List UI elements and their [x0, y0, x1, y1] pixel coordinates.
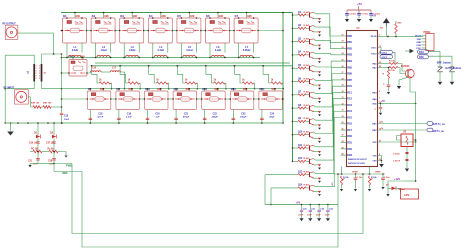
ground VR1: [340, 189, 343, 191]
wire VDD pin to regulator rail: [378, 141, 416, 143]
net flag OSC1 stadium: [380, 50, 393, 54]
svg-text:29: 29: [342, 85, 344, 87]
resistor R31 10k: [389, 61, 398, 65]
U1 right pin 20 VDD: [372, 140, 381, 144]
svg-text:10uF: 10uF: [316, 215, 321, 217]
relay K11: [172, 87, 197, 109]
transistor driver Q4 cell: [292, 51, 321, 63]
transistor driver Q13 cell: [265, 170, 321, 182]
wire Q15 collector step down: [410, 78, 416, 134]
wire resistor to bus 1: [110, 83, 113, 89]
ground bus junction dots: [17, 122, 19, 124]
wire bus to K12 coil: [204, 89, 206, 91]
svg-text:4.7nF: 4.7nF: [97, 116, 103, 119]
U1 right pin 1 MCLR: [371, 34, 380, 38]
connector J2 RF INPUT (BNC): [4, 87, 29, 104]
relay K4: [148, 14, 174, 43]
wire T1 secondary bottom to row2 bus: [42, 88, 62, 90]
wire L17 to BPF bank 2: [121, 72, 125, 89]
capacitor C40 100n decoupling: [345, 10, 357, 22]
svg-text:VDD: VDD: [417, 39, 422, 41]
wire K4 to next relay: [172, 30, 177, 32]
svg-text:25: 25: [342, 59, 344, 61]
svg-text:R 4k7: R 4k7: [304, 51, 310, 54]
connector J1 RF OUTPUT (BNC): [3, 23, 18, 39]
wire Q12 collector to U1: [314, 105, 347, 160]
svg-text:C 100n: C 100n: [361, 14, 369, 16]
U1 right pin 8 VSS: [372, 154, 380, 158]
svg-text:C23: C23: [241, 114, 246, 116]
inductor L5 0.2uH: [181, 46, 197, 59]
U1 left pin 28 RB7: [342, 78, 353, 82]
net flag SW-Tx_out: [427, 128, 444, 133]
svg-text:RC0: RC0: [347, 86, 352, 88]
capacitor C61 47uF: [393, 159, 409, 162]
svg-text:0.2uH: 0.2uH: [186, 50, 193, 52]
wire RB1 to flag: [378, 123, 428, 125]
svg-text:1.6uH: 1.6uH: [100, 50, 107, 52]
svg-text:0.4uH: 0.4uH: [158, 49, 165, 52]
U1 left pin 30 RC1: [342, 91, 353, 95]
svg-text:23: 23: [342, 47, 344, 49]
relay K12: [201, 87, 226, 109]
wire row2 top bus y88.5: [62, 88, 284, 90]
wire K2 bottom legs: [95, 43, 97, 57]
net flag BPF-Tx_out: [427, 122, 445, 127]
svg-text:R 4k7: R 4k7: [304, 24, 310, 27]
svg-text:RA7/OSC1/CLKIN: RA7/OSC1/CLKIN: [348, 162, 365, 165]
svg-text:VSS: VSS: [372, 155, 377, 157]
transistor driver Q11 cell: [292, 144, 321, 156]
svg-text:OSC2: OSC2: [371, 53, 377, 55]
wire +5V loop left: [264, 175, 266, 205]
wire K5 to next relay: [201, 30, 206, 32]
svg-text:VDD: VDD: [372, 142, 377, 144]
wire K6 bottom legs: [209, 43, 211, 57]
voltage regulator U2 78L05: [397, 132, 417, 147]
transistor driver Q8 cell: [292, 104, 321, 116]
wire RA6 to R31: [378, 63, 390, 65]
svg-text:220pF: 220pF: [212, 117, 219, 119]
wire K9 to next: [139, 98, 144, 100]
svg-text:38: 38: [342, 141, 344, 143]
svg-text:FWD: FWD: [66, 164, 72, 168]
svg-text:OSC1: OSC1: [382, 52, 389, 54]
wire K13 to next: [254, 98, 259, 100]
inductor L7 0.05uH: [239, 46, 255, 59]
svg-text:0.05uH: 0.05uH: [243, 50, 251, 52]
svg-text:GND: GND: [416, 42, 421, 44]
relay K14: [258, 87, 283, 109]
svg-text:R 4k7: R 4k7: [304, 91, 310, 94]
wire Q13 collector to U1: [314, 111, 347, 173]
wire K10 to next: [168, 98, 173, 100]
wire coil drop 5: [206, 66, 214, 83]
trimmer VR2: [368, 176, 377, 189]
ground regulator: [405, 169, 409, 172]
wire resistor to bus 7: [281, 83, 284, 89]
U1 right pin 16 RB2: [372, 128, 381, 132]
wire K11 to next: [197, 98, 202, 100]
ground at J2 shield: [7, 132, 14, 136]
transistor driver Q6 cell: [292, 77, 321, 89]
wire coil bus to K7: [246, 13, 248, 19]
svg-text:50R 1W: 50R 1W: [31, 103, 40, 105]
svg-text:RC6: RC6: [347, 124, 352, 126]
transistor driver Q2 cell: [292, 24, 321, 36]
op-amp U1 PIC16F887 MCU: [347, 27, 378, 167]
wire L16 to L17: [101, 71, 111, 73]
wire R2 to input node: [51, 106, 62, 108]
inductor L1 3.2uH: [67, 46, 83, 59]
svg-text:30: 30: [342, 91, 344, 93]
svg-text:L17: L17: [112, 68, 117, 70]
battery BT1 12V: [401, 189, 419, 199]
wire relay supply bus y65.8: [92, 65, 293, 67]
svg-text:RA5: RA5: [419, 56, 424, 59]
capacitor C18 4.7nF: [89, 110, 104, 124]
U1 left pin 31 RC2: [342, 97, 353, 101]
ground C52: [387, 92, 390, 94]
wire row2 chain right end: [281, 98, 284, 100]
svg-text:OSC2: OSC2: [382, 57, 389, 59]
svg-text:RB7: RB7: [347, 80, 352, 82]
svg-text:C 100n: C 100n: [349, 14, 357, 16]
wire coil bus to K2: [103, 13, 105, 19]
switch SW2 AUTO_button: [445, 67, 462, 81]
wire Q2 collector to U1: [314, 26, 347, 43]
net flag OSC2 stadium: [380, 55, 393, 59]
wire top relay coil bus y12: [61, 12, 293, 14]
U1 left pin 21 RB0: [342, 34, 353, 38]
ground detector right: [61, 152, 66, 156]
capacitor C20 1nF: [146, 110, 161, 124]
ground U1 VSS: [379, 164, 384, 167]
wire bus to K14 coil: [261, 89, 263, 91]
ground Q15 emitter: [399, 77, 408, 85]
wire J2 shield to ground bus: [10, 123, 12, 131]
wire T1 secondary top to node: [42, 53, 62, 55]
wire MCLR to PROG: [378, 35, 424, 37]
U1 left pin 24 RB3: [342, 52, 353, 57]
wire row2 chain left end: [62, 98, 88, 100]
transistor driver Q14 cell: [271, 184, 321, 196]
U1 right pin 26 RA7: [372, 66, 381, 70]
svg-text:+5V: +5V: [381, 101, 386, 103]
capacitor C38: [48, 156, 56, 166]
relay K2: [90, 14, 116, 43]
wire coil drop 1: [92, 66, 100, 83]
capacitor C24 47pF: [260, 110, 275, 124]
wire coil drop 3: [149, 66, 157, 83]
resistor R32 10k: [389, 67, 398, 72]
svg-text:RC3: RC3: [347, 105, 352, 107]
svg-text:BC550C: BC550C: [401, 66, 410, 68]
svg-text:R 4k7: R 4k7: [304, 37, 310, 40]
wire coil drop 6: [235, 66, 243, 83]
svg-text:RD3: RD3: [347, 155, 352, 157]
wire riser x283: [282, 13, 284, 124]
wire Q7 collector to U1: [314, 74, 347, 94]
transistor driver Q10 cell: [292, 131, 321, 143]
wire K3 to next relay: [144, 30, 149, 32]
svg-text:+5V: +5V: [296, 200, 301, 204]
wire coil bus to K1: [74, 13, 76, 19]
capacitor C37 1nF: [46, 139, 56, 148]
capacitor C21 10uF rail: [307, 204, 316, 222]
U1 left pin 34 RC5: [342, 115, 353, 120]
svg-text:RB6: RB6: [347, 74, 352, 76]
diode D1: [34, 122, 41, 138]
wire J1 to filter node: [18, 32, 54, 34]
wire row1 chain to right riser: [62, 30, 63, 32]
wire VSS pins to ground: [378, 156, 382, 161]
svg-text:VFWD: VFWD: [352, 172, 358, 174]
svg-text:0.8uH: 0.8uH: [129, 50, 136, 52]
wire PROG pin1 riser: [422, 35, 424, 38]
svg-text:R 4k7: R 4k7: [304, 157, 310, 160]
wire K8 to next: [111, 98, 116, 100]
transistor driver Q7 cell: [292, 91, 321, 103]
svg-text:100pF: 100pF: [240, 117, 247, 119]
svg-text:R 10k: R 10k: [389, 70, 395, 72]
resistor R33 base bias: [383, 67, 390, 79]
svg-text:40: 40: [342, 153, 344, 156]
wire bus to K9 coil: [118, 89, 120, 91]
svg-text:RB1: RB1: [347, 42, 352, 44]
svg-text:3.2uH: 3.2uH: [72, 50, 79, 52]
wire Q8 collector to U1: [314, 80, 347, 107]
ground battery minus: [387, 188, 389, 193]
svg-text:R 4k7: R 4k7: [304, 64, 310, 67]
ground VR2: [368, 189, 371, 191]
transistor driver Q12 cell: [292, 157, 321, 169]
svg-text:35: 35: [342, 122, 344, 124]
relay K1: [62, 14, 88, 43]
wire bus to K11 coil: [175, 89, 177, 91]
wire resistor to bus 4: [196, 83, 199, 89]
wire K2 to next relay: [115, 30, 120, 32]
ground crystal arrow: [410, 49, 414, 53]
switch SW1 BPF_button: [437, 61, 452, 81]
wire K15 coil stubs to bus: [72, 58, 74, 60]
wire Q1 collector to U1: [314, 12, 347, 36]
capacitor C23 10uF rail: [325, 204, 334, 222]
wire Q4 collector to U1: [314, 52, 347, 55]
U1 right pin 14 OSC2: [371, 51, 382, 56]
U1 right pin 13 OSC1: [371, 46, 381, 50]
svg-text:MCLR: MCLR: [415, 36, 422, 38]
wire driver base bus x292.5: [292, 13, 294, 162]
svg-text:470pF: 470pF: [183, 116, 190, 119]
relay K7: [233, 14, 259, 43]
wire flags to buttons: [429, 51, 441, 66]
U1 left pin 36 RC7: [341, 128, 353, 132]
svg-text:C22: C22: [213, 114, 218, 116]
svg-text:OSC1: OSC1: [371, 47, 377, 49]
svg-text:C 47uF: C 47uF: [393, 160, 401, 163]
wire resistor to bus 2: [138, 83, 141, 89]
U1 left pin 26 RB5: [342, 66, 353, 70]
svg-text:R 4k7: R 4k7: [304, 104, 310, 107]
svg-text:22: 22: [342, 41, 344, 43]
svg-text:10uF: 10uF: [307, 215, 312, 217]
svg-text:Rx 4k: Rx 4k: [48, 148, 55, 151]
relay K5: [176, 14, 202, 43]
svg-text:R 4k7: R 4k7: [304, 11, 310, 14]
svg-text:R 4k7: R 4k7: [304, 77, 310, 80]
relay K3: [119, 14, 145, 43]
svg-text:VSS: VSS: [372, 160, 377, 162]
wire K1 to next relay: [87, 30, 92, 32]
wire K4 bottom legs: [152, 43, 154, 57]
wire relay supply bus y63: [95, 62, 290, 64]
svg-text:2.2nF: 2.2nF: [126, 117, 132, 119]
svg-text:C 100n: C 100n: [393, 154, 401, 156]
svg-text:PGD: PGD: [416, 45, 421, 47]
relay K15 (input bypass): [68, 55, 88, 77]
capacitor C20 10uF rail: [298, 204, 307, 222]
wire regulator output down: [406, 147, 408, 169]
svg-text:28: 28: [342, 78, 344, 80]
wire row2 bottom ground bus y123: [5, 122, 283, 124]
wire K1 bottom legs: [66, 43, 68, 57]
svg-text:L16: L16: [92, 68, 97, 70]
svg-text:RB2: RB2: [347, 48, 352, 50]
U1 right pin 11 VDD: [372, 102, 381, 106]
inductor L6 0.1uH: [210, 46, 226, 59]
svg-text:+12V: +12V: [394, 177, 400, 181]
U1 left pin 27 RB6: [342, 72, 353, 76]
wire K15 to L16: [87, 72, 91, 73]
svg-text:31: 31: [342, 97, 344, 99]
svg-text:RB0: RB0: [347, 36, 352, 38]
svg-text:10uF: 10uF: [298, 215, 303, 217]
svg-text:50R 1W: 50R 1W: [43, 103, 52, 105]
wire RA7 to R32: [378, 67, 390, 69]
svg-text:26: 26: [342, 66, 344, 68]
wire OSC join right: [393, 52, 396, 63]
diode D3 1N4007: [386, 181, 406, 192]
wire VDD rail above U1: [347, 9, 371, 11]
wire K5 bottom legs: [180, 43, 182, 57]
wire Q3 collector to U1: [314, 39, 347, 49]
trimmer VR1: [340, 176, 349, 189]
capacitor C23 100pF: [232, 110, 248, 124]
capacitor C31: [28, 156, 40, 166]
wire Q14 collector to U1: [314, 118, 347, 187]
transistor driver Q9 cell: [292, 117, 321, 129]
svg-text:RB4: RB4: [347, 60, 352, 63]
svg-text:RC4: RC4: [347, 110, 352, 113]
wire Q6 collector to U1: [314, 67, 347, 80]
svg-text:RD2: RD2: [347, 149, 352, 151]
capacitor C52: [383, 79, 390, 92]
wire RB2 to flag: [378, 129, 428, 131]
U1 left pin 38 RD1: [341, 141, 353, 145]
U1 left pin 35 RC6: [341, 122, 353, 126]
svg-text:R 4k7: R 4k7: [304, 184, 310, 187]
svg-text:10uF: 10uF: [325, 215, 330, 217]
inductor L2 1.6uH: [96, 46, 112, 59]
svg-text:+5V: +5V: [357, 2, 362, 6]
U1 left pin 40 RD3: [341, 153, 353, 158]
wire Q11 collector to U1: [314, 99, 347, 147]
wire coil drop 4: [177, 66, 185, 83]
svg-text:1nF: 1nF: [156, 117, 161, 119]
wire OSC2 stub: [378, 54, 380, 55]
transistor Q15 BC550C: [401, 66, 414, 78]
resistor R30 10k pullup: [380, 21, 403, 36]
wire REF loop to ADC: [82, 172, 338, 248]
wire inductor bus y57.5 row1: [62, 57, 261, 59]
svg-text:R 4k7: R 4k7: [304, 117, 310, 120]
wire bus to K8 coil: [89, 89, 91, 91]
resistor R20 1M: [30, 149, 45, 153]
svg-text:VREF: VREF: [375, 172, 381, 174]
svg-text:BPF_button: BPF_button: [437, 61, 452, 64]
transistor driver Q5 cell: [292, 64, 321, 76]
wire resistor to bus 6: [253, 83, 256, 89]
svg-text:RA4: RA4: [419, 51, 424, 54]
svg-text:MCLR: MCLR: [371, 36, 377, 38]
svg-text:37: 37: [342, 135, 344, 137]
capacitor C42 100n decoupling: [369, 10, 381, 22]
capacitor C71: [381, 174, 390, 187]
diode D2: [50, 122, 57, 138]
U1 right pin 7 RA5: [372, 97, 380, 101]
wire K12 to next: [225, 98, 230, 100]
wire FWD loop to ADC: [72, 164, 363, 234]
U1 left pin 29 RC0: [342, 85, 353, 89]
svg-text:RC5: RC5: [347, 117, 352, 119]
svg-text:BAT-Tx_ou: BAT-Tx_ou: [433, 123, 446, 126]
svg-text:+5V: +5V: [372, 16, 377, 18]
capacitor C30 1nF: [29, 139, 40, 148]
svg-text:R 4k7: R 4k7: [304, 144, 310, 147]
wire coil bus to K5: [188, 13, 190, 19]
capacitor C70: [354, 174, 363, 189]
U1 left pin 33 RC4: [342, 110, 353, 114]
svg-text:VDD: VDD: [372, 103, 377, 105]
U1 right pin 19 VSS: [372, 159, 381, 163]
wire K7 bottom legs: [238, 43, 240, 57]
transformer T1: [5, 54, 47, 89]
svg-text:12V: 12V: [404, 193, 410, 197]
wire Q5 collector to U1: [314, 61, 347, 67]
svg-text:21: 21: [342, 34, 344, 36]
wire bus to K13 coil: [232, 89, 234, 91]
power arrow +5V MCLR: [372, 16, 389, 37]
wire K6 to next relay: [230, 30, 235, 32]
svg-text:0.1uH: 0.1uH: [215, 50, 222, 52]
relay K13: [230, 87, 255, 109]
capacitor C60 100n: [393, 152, 409, 155]
U1 left pin 22 RB1: [342, 41, 353, 45]
svg-text:RD1: RD1: [347, 142, 352, 144]
capacitor C41 100n decoupling: [357, 10, 369, 22]
svg-text:33: 33: [342, 110, 344, 112]
capacitor C22 10uF rail: [316, 204, 325, 222]
capacitor C53 on +5V rail: [375, 103, 383, 115]
capacitor C22 220pF: [203, 110, 219, 124]
relay K10: [144, 87, 169, 109]
svg-text:R 4k7: R 4k7: [304, 170, 310, 173]
svg-text:RC1: RC1: [347, 92, 352, 94]
wire coil bus to K3: [131, 13, 133, 19]
wire R31/R32 join to Q15: [398, 64, 406, 72]
svg-text:10nF: 10nF: [64, 119, 70, 121]
